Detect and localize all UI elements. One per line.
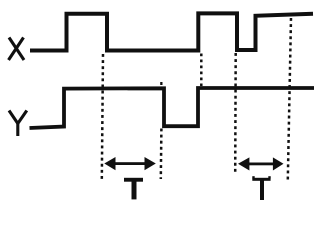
dotted timing line t2 (Y fall): [160, 82, 162, 85]
label T (right): [252, 176, 270, 200]
dotted timing line t3 (X and Y rise): [200, 54, 203, 87]
signal label Y: [9, 111, 27, 137]
dotted timing line t4 (second X fall): [234, 53, 237, 175]
arrow: right T interval: [238, 157, 284, 170]
dotted timing line t1 (first X fall): [102, 54, 103, 181]
wire: Y waveform: [30, 88, 315, 128]
dotted timing line t5 (right marker): [288, 18, 291, 180]
label T (left): [124, 178, 143, 200]
arrow: left T interval: [104, 157, 156, 170]
signal label X: [9, 38, 25, 61]
wire: X waveform: [30, 13, 313, 50]
